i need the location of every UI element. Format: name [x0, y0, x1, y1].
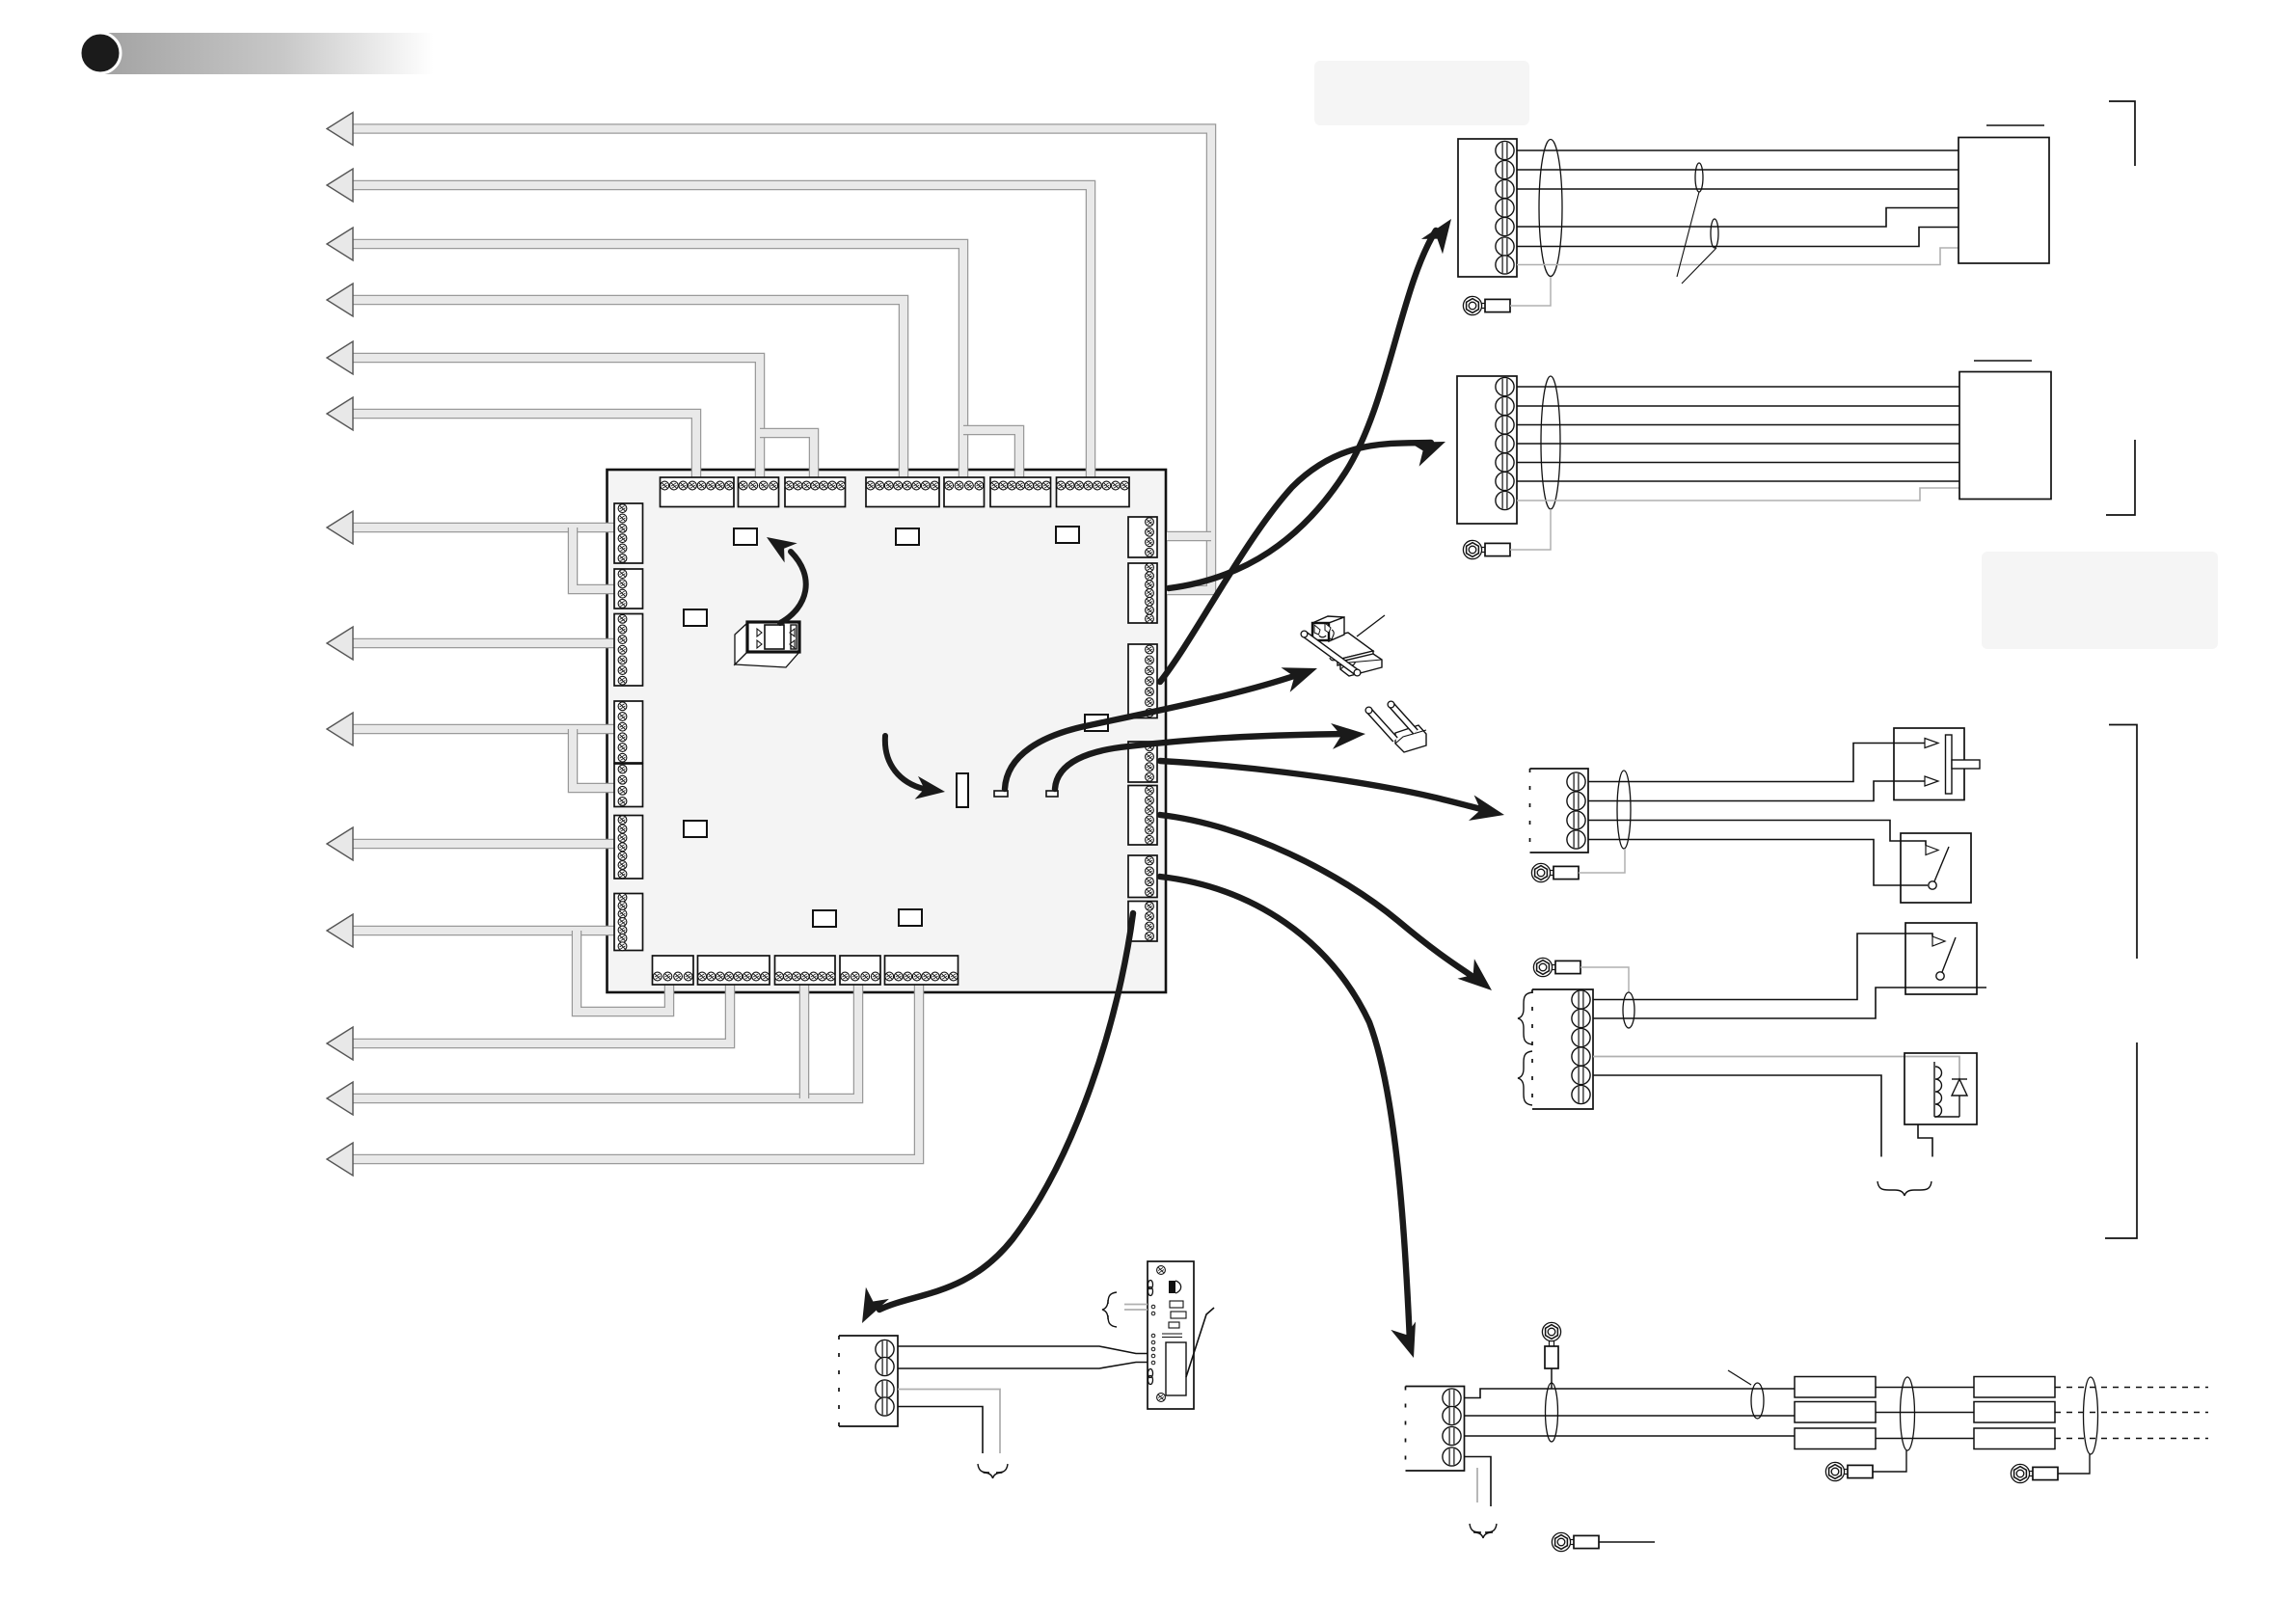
psu resistor 2: [1171, 1312, 1186, 1318]
lock shield wire: [1580, 967, 1629, 992]
arrow out 6: [327, 397, 353, 430]
arrow to reader 1: [1169, 219, 1451, 588]
reader 1 bracket: [2109, 101, 2135, 166]
lock output connector: [1532, 989, 1593, 1109]
IC chip 3: [1056, 527, 1079, 543]
reader 1 wire PWR: [1517, 228, 1958, 247]
arrow out 11: [327, 914, 353, 947]
wire to terminal block B: [345, 358, 760, 482]
battery fuse lug: [1542, 1322, 1560, 1368]
reader 2 shield lug: [1463, 540, 1510, 558]
battery wire mid: [1465, 1415, 1796, 1417]
main controller board: [608, 470, 1167, 992]
lock shield lug: [1533, 958, 1580, 976]
door shield wire: [1579, 849, 1625, 873]
psu tamper lever: [1186, 1308, 1214, 1377]
reader 1 cable ellipse: [1539, 140, 1562, 277]
lock wire NC: [1593, 934, 1932, 1000]
arrow to connector: [885, 736, 945, 799]
terminal block R4 (right): [1128, 742, 1157, 782]
battery wire -: [1465, 1435, 1796, 1437]
terminal block A (top): [661, 477, 735, 507]
aux switch arrow: [1932, 936, 1945, 946]
battery group ellipse 2: [2084, 1377, 2098, 1454]
battery cell 1-3: [1795, 1428, 1876, 1449]
psu jumper bar: [1162, 1334, 1182, 1338]
battery wire +: [1465, 1389, 1796, 1398]
reader 1 box: [1958, 138, 2049, 264]
arrow to power connector: [862, 913, 1133, 1323]
IC chip 5: [1085, 715, 1108, 731]
vertical connector: [957, 773, 968, 807]
reader 1 pair callout line 1: [1677, 192, 1699, 277]
terminal block R2 (right): [1128, 563, 1157, 623]
wire to terminal block L1: [345, 523, 617, 533]
terminal block R5 (right): [1128, 786, 1157, 846]
terminal block G (top): [1057, 477, 1130, 507]
psu screw bottom: [1157, 1394, 1166, 1402]
jumper pad 1: [994, 791, 1008, 797]
battery cell 2-2: [1974, 1402, 2055, 1423]
wire branch to terminal block L5: [573, 729, 617, 788]
reader 2 connector: [1457, 376, 1517, 524]
IC chip 8: [899, 909, 922, 926]
power underbrace: [978, 1464, 1008, 1478]
terminal block L4 (left): [614, 701, 643, 763]
reader 1 twisted pair ellipse 1: [1695, 163, 1703, 192]
psu led: [1169, 1281, 1175, 1293]
outputs bracket bottom: [2105, 1042, 2137, 1238]
IC chip 6: [684, 821, 707, 837]
psu screw top: [1157, 1266, 1166, 1275]
reader 2 cable ellipse: [1541, 376, 1560, 509]
power wire black: [898, 1407, 983, 1454]
buzzer box: [1894, 728, 1964, 800]
jumper fitted callout line: [1357, 615, 1385, 636]
terminal block C (top): [785, 477, 846, 507]
battery link wires 1: [1876, 1388, 1974, 1439]
psu cable marks 1: [1148, 1281, 1153, 1289]
terminal block E (top): [944, 477, 985, 507]
terminal block BB4 (bottom): [840, 956, 880, 985]
IC chip 1: [734, 528, 757, 545]
terminal block L6 (left): [614, 816, 643, 880]
lock wire coil-: [1593, 1075, 1881, 1157]
psu resistor 3: [1169, 1322, 1179, 1328]
aux switch lever: [1942, 937, 1956, 972]
battery mid lug wire: [1874, 1450, 1907, 1472]
lock relay box: [1904, 1053, 1977, 1124]
terminal block L7 (left): [614, 893, 643, 950]
power input connector: [839, 1336, 898, 1426]
door switch contact: [1929, 881, 1936, 889]
lock cable ellipse: [1623, 992, 1634, 1028]
wire to terminal block G: [345, 185, 1091, 479]
reader 2 wire 3: [1517, 424, 1959, 426]
terminal block B (top): [739, 477, 779, 507]
arrow out 13: [327, 1082, 353, 1115]
psu resistor 1: [1170, 1301, 1183, 1308]
door switch lever: [1934, 847, 1949, 881]
battery cable ellipse: [1546, 1383, 1558, 1442]
reader 2 wire 6: [1517, 480, 1959, 482]
battery cell 1-2: [1795, 1402, 1876, 1423]
door input connector: [1530, 769, 1589, 853]
reader 2 wire 4: [1517, 443, 1959, 445]
reader 2 wire 1: [1517, 386, 1959, 388]
reader 2 wire 2: [1517, 405, 1959, 407]
jumper pad 2: [1046, 791, 1058, 797]
buzzer element vertical: [1946, 735, 1953, 794]
arrow to door connector: [1160, 761, 1504, 821]
wire bus to R1/R2 ports: [345, 129, 1211, 591]
lock coil: [1934, 1062, 1942, 1117]
wire to terminal block D: [345, 300, 904, 482]
legend box right: [1982, 552, 2218, 649]
outputs bracket top: [2109, 725, 2137, 960]
battery cell 2-1: [1974, 1377, 2055, 1398]
psu pin dots: [1151, 1305, 1155, 1365]
terminal block F (top): [990, 477, 1051, 507]
power cable upper line: [898, 1346, 1148, 1354]
header black dot: [80, 33, 121, 73]
wire to terminal blocks BB3/BB4: [345, 982, 858, 1098]
wire to terminal block BB5: [345, 982, 919, 1159]
terminal block L3 (left): [614, 614, 643, 687]
psu relay: [1166, 1342, 1186, 1395]
terminal block R1 (right): [1128, 517, 1157, 557]
door wire switch2: [1588, 840, 1928, 886]
wire stub to R1: [1167, 531, 1211, 542]
reader 1 label line: [1986, 124, 2044, 126]
reader 1 shield lug: [1463, 296, 1510, 314]
arrow out 14: [327, 1143, 353, 1176]
aux switch box: [1905, 923, 1977, 994]
battery dashed wires: [2055, 1388, 2208, 1439]
wire to terminal block L3: [345, 638, 617, 649]
terminal block L2 (left): [614, 569, 643, 609]
reader 1 wire BZR: [1517, 208, 1958, 228]
arrow to jumper parked: [1055, 723, 1365, 789]
arrow out 7: [327, 511, 353, 544]
arrow to jumper fitted: [1005, 667, 1317, 789]
lock diode: [1934, 1079, 1967, 1117]
arrow out 8: [327, 627, 353, 660]
wire branch to terminal block F: [963, 430, 1019, 482]
terminal block L5 (left): [614, 764, 643, 807]
reader 1 wire GND: [1517, 248, 1958, 265]
arrow out 9: [327, 713, 353, 745]
IC chip 2: [896, 528, 919, 545]
wire wrap to terminal block BB1: [577, 931, 669, 1012]
battery end lug wire: [2059, 1454, 2091, 1474]
terminal block L1 (left): [614, 503, 643, 563]
reader 1 twisted pair ellipse 2: [1711, 219, 1718, 248]
terminal block D (top): [866, 477, 939, 507]
psu cable marks 2: [1148, 1369, 1153, 1378]
arrow to lock connector: [1160, 815, 1492, 990]
arrow out 3: [327, 228, 353, 260]
reader 1 pair callout line 2: [1682, 248, 1716, 284]
door shield lug: [1531, 863, 1579, 881]
buzzer element horizontal: [1952, 760, 1980, 769]
reader 1 wire DATA0: [1517, 149, 1958, 151]
arrow out 10: [327, 827, 353, 860]
wire to terminal block BB2: [345, 982, 730, 1043]
arrow out 4: [327, 284, 353, 316]
lock relay exit wire: [1918, 1124, 1932, 1157]
terminal block R7 (right): [1128, 902, 1157, 942]
door switch arrow: [1926, 846, 1938, 855]
terminal block R6 (right): [1128, 855, 1157, 898]
terminal block R3 (right): [1128, 644, 1157, 718]
buzzer arrow 2: [1925, 776, 1938, 786]
wire branch to terminal block L2: [573, 528, 617, 589]
door cable ellipse: [1617, 771, 1631, 849]
door wire buzzer-: [1588, 781, 1925, 801]
door wire buzzer+: [1588, 744, 1925, 782]
power cable lower line: [898, 1363, 1148, 1369]
battery group ellipse 1: [1901, 1377, 1915, 1450]
arrow out 5: [327, 341, 353, 374]
battery wire down gray: [1476, 1468, 1478, 1502]
battery holder icon: [735, 622, 799, 667]
reader 2 wire 5: [1517, 462, 1959, 464]
reader 2 label line: [1974, 360, 2032, 362]
battery lug wire: [1551, 1368, 1553, 1389]
terminal block BB1 (bottom): [653, 956, 694, 985]
reader 2 box: [1959, 372, 2051, 500]
buzzer arrow 1: [1925, 739, 1938, 748]
terminal block BB5 (bottom): [885, 956, 959, 985]
power supply pcb: [1148, 1261, 1194, 1409]
battery gnd lug wire: [1599, 1541, 1655, 1543]
lock underbrace: [1877, 1181, 1931, 1196]
lock wire coil+: [1593, 1057, 1959, 1081]
battery mid lug: [1825, 1462, 1873, 1480]
psu ac wires: [1124, 1305, 1148, 1311]
wire branch to terminal block BB3: [799, 982, 810, 1098]
battery underbrace: [1470, 1524, 1497, 1538]
battery cell 1-1: [1795, 1377, 1876, 1398]
reader 1 shield wire: [1510, 277, 1551, 306]
arrow out 12: [327, 1027, 353, 1060]
terminal block BB2 (bottom): [698, 956, 770, 985]
lock brace upper: [1518, 992, 1532, 1044]
arrow battery holder to socket: [767, 537, 806, 623]
jumper parked icon: [1395, 725, 1426, 752]
reader 2 wire GND: [1517, 488, 1959, 501]
reader 2 bracket: [2106, 440, 2135, 515]
arrow to battery connector: [1160, 877, 1416, 1358]
battery wire down black: [1465, 1457, 1492, 1507]
IC chip 4: [684, 609, 707, 626]
battery slash: [1728, 1370, 1751, 1385]
arrow out 2: [327, 169, 353, 202]
psu ac brace: [1102, 1292, 1117, 1327]
door switch box: [1901, 833, 1971, 903]
reader 1 wire LED: [1517, 188, 1958, 190]
reader 1 connector: [1458, 139, 1517, 277]
legend box top: [1314, 61, 1529, 125]
wire to terminal block A: [345, 414, 696, 482]
door wire switch1: [1588, 821, 1926, 846]
arrow to reader 2: [1160, 442, 1445, 682]
jumper fitted icon: [1312, 616, 1382, 676]
arrow out 1: [327, 113, 353, 146]
wire to terminal block L6: [345, 839, 617, 850]
battery gnd lug: [1552, 1532, 1599, 1551]
wire to terminal block L4: [345, 724, 617, 735]
terminal block BB3 (bottom): [775, 956, 836, 985]
reader 1 wire DATA1: [1517, 169, 1958, 171]
aux switch contact: [1936, 972, 1944, 980]
battery small ellipse: [1751, 1383, 1764, 1419]
battery end lug: [2011, 1464, 2058, 1482]
wire to terminal block L7: [345, 926, 617, 936]
wire to terminal block E: [345, 244, 963, 482]
wire branch to terminal block C: [760, 433, 814, 482]
power wire gray: [898, 1390, 1000, 1454]
lock brace lower: [1518, 1051, 1532, 1105]
lock wire COM: [1593, 988, 1986, 1018]
battery connector: [1406, 1387, 1465, 1472]
reader 2 shield wire: [1510, 509, 1551, 550]
IC chip 7: [813, 910, 836, 927]
battery cell 2-3: [1974, 1428, 2055, 1449]
